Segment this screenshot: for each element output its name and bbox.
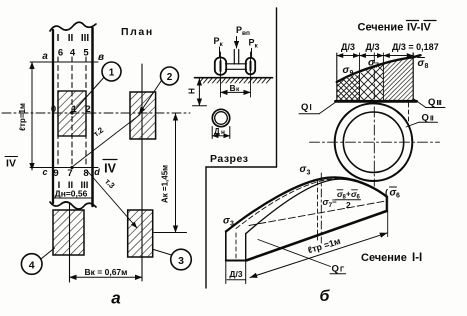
leader from callout 4 to rect 4	[42, 248, 55, 259]
column I dashed axis	[57, 57, 59, 165]
svg-text:Сечение: Сечение	[358, 22, 404, 34]
stress label sigma7	[368, 58, 379, 70]
right wheel	[246, 58, 255, 74]
circle callout 1	[102, 62, 121, 81]
rect2/rect3 vertical centerline	[141, 64, 143, 281]
svg-text:2: 2	[85, 104, 90, 115]
svg-text:9: 9	[350, 70, 354, 77]
svg-text:σ: σ	[300, 164, 307, 175]
load label Pk left	[214, 36, 224, 48]
svg-text:к: к	[220, 41, 224, 48]
pipe inner circle (razrez)	[215, 112, 228, 125]
stress label sigma3 left	[223, 216, 234, 228]
wheel footprint rect 1 (on pipe)	[58, 91, 86, 136]
svg-text:Д/3 = 0,187: Д/3 = 0,187	[392, 42, 439, 52]
dim H bottom tick	[193, 105, 207, 107]
left wheel tread mark	[220, 61, 222, 71]
svg-text:Д/3: Д/3	[341, 42, 355, 52]
svg-text:I: I	[310, 103, 312, 112]
QII leader	[406, 122, 419, 127]
column III dashed axis	[85, 57, 87, 165]
label QI underlined	[299, 102, 320, 114]
frame divider horizontal	[206, 166, 277, 168]
loaf top hidden dashed curve	[236, 179, 383, 229]
svg-text:I: I	[57, 33, 60, 44]
load label Pk right	[249, 38, 259, 50]
extension line col 2	[359, 53, 361, 101]
right extension line	[387, 196, 389, 237]
pipe outer circle (IV-IV)	[335, 103, 413, 181]
circle callout 4	[21, 254, 42, 275]
svg-text:d: d	[94, 167, 100, 177]
leader from callout 1 to point 1	[74, 78, 104, 112]
svg-text:III: III	[437, 98, 442, 107]
column II dashed axis	[71, 57, 73, 165]
stress block right segment hatched	[383, 57, 413, 101]
svg-text:Д/3: Д/3	[229, 269, 242, 279]
pipe outer circle (razrez)	[212, 109, 229, 126]
left wheel	[215, 58, 226, 75]
stress top curve	[337, 55, 421, 82]
svg-text:II: II	[430, 114, 434, 123]
svg-text:IV: IV	[6, 158, 16, 170]
dim Bk line (razrez)	[221, 91, 251, 93]
svg-text:IV: IV	[104, 162, 116, 176]
svg-text:ℓтр=1м: ℓтр=1м	[18, 103, 27, 131]
loaf front bottom thick edge	[246, 211, 387, 261]
load label Pvp	[236, 25, 250, 37]
block right edge	[412, 53, 414, 101]
pipe strip left edge	[52, 30, 54, 203]
svg-text:4: 4	[29, 260, 35, 272]
Ak bottom extension line	[154, 232, 187, 234]
top dim line with arrows	[337, 55, 413, 57]
dim H vertical	[198, 79, 200, 106]
svg-text:т.3: т.3	[103, 177, 117, 191]
label D/3 underlined	[227, 269, 246, 280]
left wheel centerline	[220, 52, 222, 97]
Pk left lead line	[219, 47, 221, 57]
load post	[233, 50, 235, 65]
left face left edge	[225, 231, 227, 261]
block bottom thick line	[336, 100, 417, 103]
wheel footprint rect 3	[128, 210, 153, 257]
extension line left edge	[336, 53, 338, 101]
loaf right end edge	[386, 197, 388, 212]
D/3 box left line	[225, 261, 227, 284]
Pk right lead line	[251, 49, 253, 58]
svg-text:Г: Г	[340, 265, 345, 274]
svg-text:Дн=0,56: Дн=0,56	[55, 189, 88, 199]
svg-text:Q: Q	[301, 102, 308, 113]
QI leader	[320, 102, 337, 114]
row a-v line	[30, 61, 98, 63]
svg-text:План: План	[121, 26, 154, 38]
left face hidden dashed edge	[235, 233, 237, 260]
svg-text:4: 4	[70, 48, 76, 59]
vertical centerline	[373, 53, 375, 186]
svg-text:н: н	[221, 129, 225, 136]
label QII underlined	[419, 113, 438, 124]
svg-text:9: 9	[53, 168, 58, 179]
svg-text:3: 3	[307, 170, 311, 177]
strip bottom break (wavy)	[50, 202, 96, 209]
leader line t.2 from point 7 to rect 2	[72, 115, 140, 168]
loaf hidden bottom back edge (dashed)	[249, 201, 387, 226]
svg-text:т.2: т.2	[92, 125, 106, 138]
axle double line	[226, 63, 247, 65]
point 7 dot	[70, 166, 73, 169]
svg-text:8: 8	[425, 63, 429, 70]
svg-text:7: 7	[67, 168, 72, 179]
label QG underlined	[330, 264, 346, 275]
title Sechenie I-I	[361, 252, 422, 264]
svg-text:б: б	[320, 288, 331, 305]
svg-text:к: к	[255, 43, 259, 50]
svg-text:вп: вп	[242, 30, 250, 37]
svg-text:а: а	[111, 289, 120, 308]
title Sechenie IV-IV	[358, 21, 437, 34]
left face bottom edge	[226, 260, 246, 262]
svg-text:в: в	[98, 52, 104, 63]
svg-text:2: 2	[346, 200, 351, 210]
dim text Dn	[214, 127, 225, 136]
svg-text:с: с	[42, 167, 47, 177]
left face right edge	[245, 234, 247, 261]
leader from callout 3 to rect 3	[154, 250, 172, 256]
circle callout 2	[161, 67, 179, 85]
label QIII underlined	[426, 97, 446, 108]
stress label sigma6 right (overlined)	[385, 187, 400, 200]
stress label sigma8 (overlined)	[418, 58, 429, 71]
svg-text:σ: σ	[418, 58, 425, 69]
label QG leader	[258, 240, 331, 267]
extension line col 3	[382, 53, 384, 101]
right wheel tread mark	[250, 62, 252, 71]
svg-text:Вк = 0,67м: Вк = 0,67м	[85, 267, 128, 277]
dim ltr vertical line	[31, 62, 33, 170]
right wheel centerline	[250, 52, 252, 97]
section mark IV right	[103, 160, 117, 176]
strip top break (wavy)	[50, 22, 96, 31]
svg-text:7: 7	[375, 63, 379, 70]
svg-text:Q: Q	[428, 97, 435, 108]
Dn extension left	[211, 127, 213, 139]
rect4 vertical centerline	[69, 203, 71, 282]
frame divider vertical left	[205, 167, 207, 288]
row c-d line	[30, 167, 98, 169]
extension dashed line below block right	[408, 103, 410, 126]
svg-text:Д/3: Д/3	[366, 42, 380, 52]
dim ltr line	[250, 233, 387, 278]
dim Bk line	[70, 276, 143, 278]
section cut dashed line	[317, 181, 319, 240]
loaf top back curve (thick)	[226, 177, 387, 231]
svg-text:Д: Д	[214, 127, 220, 136]
svg-text:6: 6	[58, 48, 63, 59]
wheel footprint rect 4	[53, 210, 84, 255]
ground line	[195, 77, 273, 79]
svg-text:0: 0	[51, 104, 56, 115]
svg-text:II: II	[68, 33, 74, 44]
pipe strip right edge	[91, 28, 94, 206]
svg-text:IV-IV: IV-IV	[407, 22, 432, 34]
Pvp arrow	[236, 37, 238, 49]
svg-text:σ: σ	[223, 216, 230, 227]
formula sigma7=(sigma8+sigma6)/2	[323, 189, 361, 210]
point 1 dot	[70, 111, 73, 114]
leader line t.3 from point 8 to rect 3	[87, 170, 138, 228]
svg-text:I-I: I-I	[412, 252, 422, 264]
svg-text:2: 2	[167, 72, 173, 83]
dim Ak vertical line	[175, 114, 177, 233]
QIII leader	[413, 99, 426, 108]
svg-text:ℓтр =1м: ℓтр =1м	[307, 236, 343, 256]
svg-text:III: III	[81, 33, 90, 44]
ground hatch	[199, 78, 271, 83]
Dn extension right	[229, 127, 231, 139]
strip inner line under Dn label	[53, 197, 93, 199]
svg-text:а: а	[42, 51, 48, 62]
mid row centerline	[2, 112, 190, 114]
dim text Bk	[230, 83, 241, 93]
wheel footprint rect 2	[130, 92, 156, 139]
frame divider vertical right	[276, 8, 278, 167]
horizontal centerline	[310, 141, 440, 143]
section mark IV left	[5, 157, 18, 170]
svg-text:(: (	[385, 188, 388, 198]
svg-text:σ: σ	[343, 65, 350, 76]
circle callout 3	[171, 249, 192, 270]
svg-text:Н: Н	[187, 88, 197, 94]
svg-text:6: 6	[396, 193, 400, 200]
stress label sigma3 top	[300, 164, 311, 177]
svg-text:3: 3	[178, 255, 184, 267]
stress block left segment hatched	[337, 73, 360, 101]
svg-text:Разрез: Разрез	[210, 153, 249, 165]
loaf top front curve	[246, 179, 387, 233]
pipe inner circle (IV-IV)	[343, 112, 403, 172]
D/3 box right line	[245, 261, 247, 284]
stress label sigma9	[343, 65, 354, 77]
dim Dn line	[212, 135, 230, 137]
leader from callout 2 to rect 2	[139, 81, 162, 115]
svg-text:Сечение: Сечение	[361, 252, 407, 264]
svg-text:3: 3	[230, 221, 234, 228]
section cut dash-dot line	[320, 173, 322, 243]
svg-text:Ак =1,45м: Ак =1,45м	[161, 165, 170, 203]
svg-text:Q: Q	[332, 264, 339, 275]
svg-text:В: В	[230, 83, 236, 93]
svg-text:8: 8	[83, 168, 88, 179]
svg-text:1: 1	[109, 68, 115, 79]
stress block middle segment hatched	[360, 64, 384, 102]
